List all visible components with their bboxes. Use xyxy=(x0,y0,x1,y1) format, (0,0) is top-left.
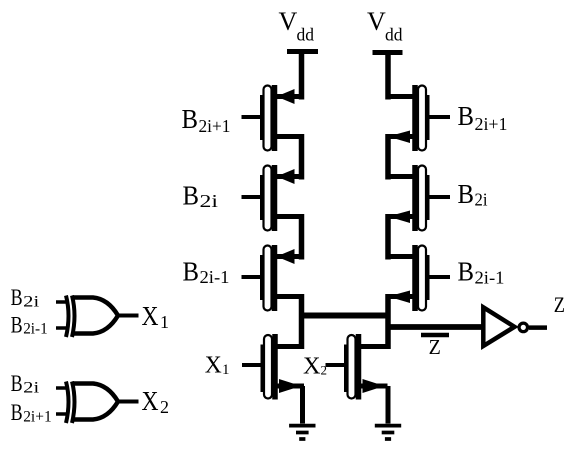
svg-text:B: B xyxy=(183,257,200,287)
svg-text:X: X xyxy=(205,353,222,379)
svg-text:2i: 2i xyxy=(475,190,488,210)
svg-text:2i+1: 2i+1 xyxy=(23,408,52,425)
svg-text:B: B xyxy=(458,257,475,287)
svg-text:X: X xyxy=(142,301,159,331)
svg-text:B: B xyxy=(458,179,475,209)
svg-text:B: B xyxy=(183,181,200,211)
svg-text:X: X xyxy=(303,354,321,380)
svg-text:B: B xyxy=(458,101,475,131)
svg-text:B: B xyxy=(11,371,23,396)
svg-text:1: 1 xyxy=(160,312,169,332)
svg-text:2i: 2i xyxy=(23,294,40,311)
svg-text:2i-1: 2i-1 xyxy=(475,268,505,288)
svg-text:X: X xyxy=(142,386,159,416)
svg-text:2: 2 xyxy=(321,363,328,378)
svg-text:2i-1: 2i-1 xyxy=(23,320,48,337)
svg-text:B: B xyxy=(11,312,23,337)
svg-text:V: V xyxy=(279,7,298,36)
svg-text:V: V xyxy=(367,7,386,36)
svg-text:B: B xyxy=(182,104,199,134)
svg-text:2i+1: 2i+1 xyxy=(199,116,231,136)
svg-text:1: 1 xyxy=(222,362,230,378)
svg-text:2i-1: 2i-1 xyxy=(200,267,230,287)
svg-text:2i: 2i xyxy=(23,380,40,397)
svg-text:2i+1: 2i+1 xyxy=(475,114,508,134)
svg-text:2: 2 xyxy=(160,397,169,417)
svg-text:B: B xyxy=(11,400,23,425)
svg-text:B: B xyxy=(11,285,23,310)
svg-text:2i: 2i xyxy=(200,191,219,211)
svg-text:dd: dd xyxy=(297,25,315,45)
svg-text:dd: dd xyxy=(385,25,403,45)
svg-text:Z: Z xyxy=(429,335,441,359)
svg-text:Z: Z xyxy=(554,292,565,317)
